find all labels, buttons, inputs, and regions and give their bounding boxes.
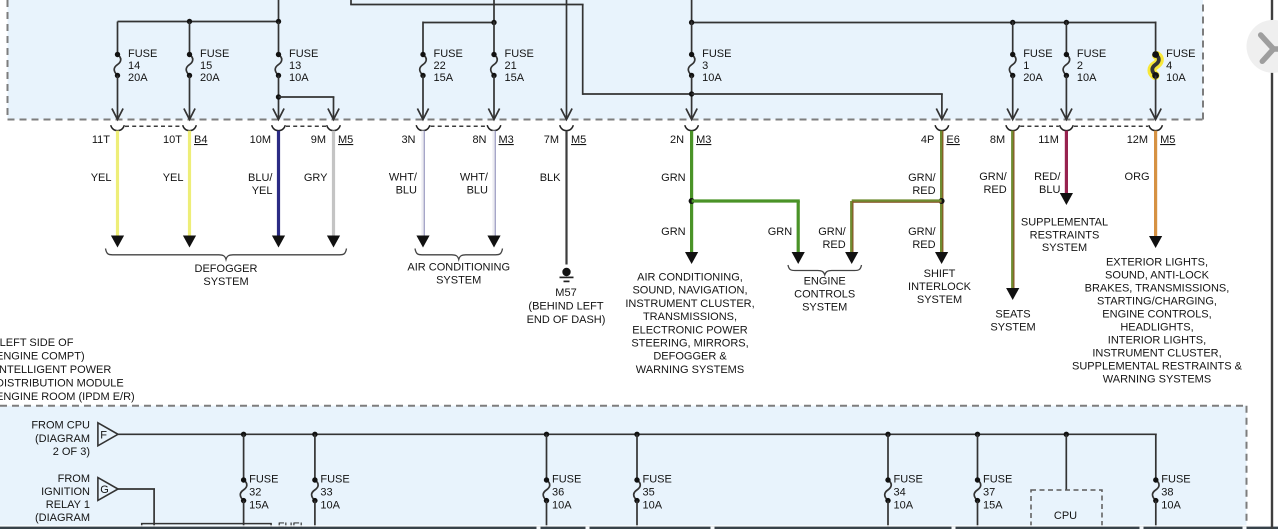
wire drop below fuse F15 (FUSE 15 20A) bbox=[189, 76, 191, 119]
connector cup at x=566.5 bbox=[560, 125, 574, 130]
svg-text:RELAY 1: RELAY 1 bbox=[46, 499, 90, 511]
wire feed from top to connector 7M (BLK) bbox=[566, 0, 568, 119]
box-exit arrow at x=691.6 bbox=[686, 109, 697, 120]
right panel edge line bbox=[1271, 0, 1273, 529]
wire drop below fuse F2 (FUSE 2 10A) bbox=[1065, 76, 1067, 119]
wire bus A (fuses 14/15/13) bbox=[118, 21, 280, 23]
pin label 10T bbox=[163, 134, 182, 146]
svg-text:B4: B4 bbox=[194, 134, 207, 146]
wire BLU/YEL from 10M bbox=[277, 131, 280, 237]
wire drop below fuse F34 (FUSE 34 10A) bbox=[887, 501, 889, 529]
svg-text:GRN: GRN bbox=[661, 172, 686, 184]
pin label 3N bbox=[401, 134, 415, 146]
svg-text:BLK: BLK bbox=[540, 172, 561, 184]
brace ENGINE CONTROLS SYSTEM bbox=[788, 265, 862, 275]
wire drop to CPU bbox=[1065, 434, 1067, 490]
svg-text:F: F bbox=[100, 429, 107, 441]
svg-text:8N: 8N bbox=[472, 134, 486, 146]
svg-text:20A: 20A bbox=[1023, 72, 1043, 84]
label GRN/RED 8M bbox=[979, 171, 1007, 196]
label GRN/RED branch bbox=[818, 226, 846, 251]
wire YEL from 10T bbox=[188, 131, 191, 237]
svg-text:11M: 11M bbox=[1038, 134, 1059, 146]
arrowhead GRN/RED branch bbox=[845, 252, 858, 264]
svg-text:DEFOGGER &: DEFOGGER & bbox=[653, 351, 727, 363]
label YEL 10T bbox=[163, 172, 184, 184]
box-exit arrow at x=278.5 bbox=[273, 109, 284, 120]
svg-text:20A: 20A bbox=[128, 72, 148, 84]
svg-text:15A: 15A bbox=[505, 72, 525, 84]
box-exit arrow at x=189.5 bbox=[184, 109, 195, 120]
svg-text:12M: 12M bbox=[1127, 134, 1148, 146]
svg-text:GRN: GRN bbox=[661, 226, 686, 238]
svg-text:GRY: GRY bbox=[304, 172, 328, 184]
svg-text:10A: 10A bbox=[1077, 72, 1097, 84]
connector name M3 at x=691.6 bbox=[696, 134, 711, 146]
wire elbow feed to node at fuse 3 bottom bbox=[350, 0, 692, 95]
svg-text:ENGINE: ENGINE bbox=[804, 276, 846, 288]
svg-text:2N: 2N bbox=[670, 134, 684, 146]
label YEL 11T bbox=[91, 172, 112, 184]
fuse F21 (FUSE 21 15A) bbox=[491, 48, 534, 84]
FUEL component box (clipped at bottom) bbox=[142, 521, 306, 529]
IPDM E/R power-distribution box (top, dashed) bbox=[8, 0, 1204, 120]
wire feed from top to fuse 13 bbox=[278, 0, 280, 23]
svg-text:14: 14 bbox=[128, 60, 140, 72]
svg-text:11T: 11T bbox=[92, 134, 110, 146]
wire drop above fuse F33 (FUSE 33 10A) bbox=[314, 434, 316, 480]
brace AIR CONDITIONING SYSTEM bbox=[415, 249, 503, 260]
connector name B4 at x=189.5 bbox=[194, 134, 207, 146]
svg-text:RESTRAINTS: RESTRAINTS bbox=[1030, 230, 1100, 242]
svg-text:ELECTRONIC POWER: ELECTRONIC POWER bbox=[632, 324, 748, 336]
svg-text:FUSE: FUSE bbox=[200, 48, 229, 60]
wire drop below fuse F38 bbox=[1155, 501, 1157, 529]
svg-text:IGNITION: IGNITION bbox=[41, 486, 90, 498]
svg-text:M5: M5 bbox=[1160, 134, 1175, 146]
svg-text:DEFOGGER: DEFOGGER bbox=[195, 263, 258, 275]
svg-text:SUPPLEMENTAL: SUPPLEMENTAL bbox=[1021, 217, 1108, 229]
wire BLK from 7M bbox=[565, 131, 567, 265]
connector name M5 at x=1155.6 bbox=[1160, 134, 1175, 146]
arrowhead GRN/RED 8M bbox=[1006, 288, 1019, 300]
arrowhead BLU/YEL bbox=[272, 236, 285, 248]
connector flag F (FROM CPU) bbox=[98, 423, 118, 446]
wire drop above fuse F4 (FUSE 4 10A, highlighted) bbox=[1155, 22, 1157, 55]
wire drop below fuse F37 (FUSE 37 15A) bbox=[977, 501, 979, 529]
svg-text:13: 13 bbox=[289, 60, 301, 72]
svg-text:INTERIOR LIGHTS,: INTERIOR LIGHTS, bbox=[1108, 335, 1206, 347]
svg-text:DISTRIBUTION MODULE: DISTRIBUTION MODULE bbox=[0, 378, 124, 390]
node bus E at fuse 1 bbox=[1010, 20, 1015, 25]
svg-text:FUSE: FUSE bbox=[289, 48, 318, 60]
svg-text:10A: 10A bbox=[552, 500, 572, 512]
node bottom bus at fuse F37 (FUSE 37 15A) bbox=[975, 432, 980, 437]
fuse F36 (FUSE 36 10A) bbox=[543, 474, 581, 512]
svg-text:BLU/: BLU/ bbox=[248, 172, 273, 184]
svg-text:GRN/: GRN/ bbox=[908, 172, 936, 184]
brace DEFOGGER SYSTEM bbox=[106, 249, 347, 260]
label GRN/RED 4P lower bbox=[908, 226, 936, 251]
label DEFOGGER SYSTEM bbox=[195, 263, 258, 288]
wire bottom bus from flag F bbox=[118, 433, 1157, 435]
label GRY bbox=[304, 172, 328, 184]
label SEATS SYSTEM bbox=[990, 309, 1035, 334]
svg-text:FUSE: FUSE bbox=[505, 48, 534, 60]
connector name M5 at x=566.5 bbox=[571, 134, 586, 146]
svg-text:RED/: RED/ bbox=[1034, 171, 1061, 183]
wire drop above fuse F13 (FUSE 13 10A) bbox=[278, 22, 280, 55]
ground M57 bbox=[560, 268, 574, 282]
svg-text:(LEFT SIDE OF: (LEFT SIDE OF bbox=[0, 337, 74, 349]
wire drop below fuse F35 (FUSE 35 10A) bbox=[636, 501, 638, 529]
svg-text:15A: 15A bbox=[434, 72, 454, 84]
label ORG bbox=[1125, 171, 1150, 183]
wire drop above fuse F3 (FUSE 3 10A) bbox=[691, 22, 693, 55]
connector cup at x=278.5 bbox=[272, 125, 286, 130]
node bus B at fuse 21 bbox=[491, 20, 496, 25]
fuse F22 (FUSE 22 15A) bbox=[420, 48, 463, 84]
wire drop above fuse F35 (FUSE 35 10A) bbox=[636, 434, 638, 480]
arrowhead GRY bbox=[327, 236, 340, 248]
svg-text:2: 2 bbox=[1077, 60, 1083, 72]
svg-text:15: 15 bbox=[200, 60, 212, 72]
svg-text:10A: 10A bbox=[702, 72, 722, 84]
svg-text:SHIFT: SHIFT bbox=[924, 268, 956, 280]
svg-text:10A: 10A bbox=[894, 500, 914, 512]
connector cup at x=494 bbox=[487, 125, 501, 130]
wire drop below fuse F33 (FUSE 33 10A) bbox=[314, 501, 316, 529]
svg-text:BLU: BLU bbox=[467, 185, 488, 197]
svg-text:1: 1 bbox=[1023, 60, 1029, 72]
svg-text:BRAKES, TRANSMISSIONS,: BRAKES, TRANSMISSIONS, bbox=[1085, 283, 1230, 295]
arrowhead WHT/BLU 3N bbox=[416, 236, 429, 248]
svg-text:FUSE: FUSE bbox=[1077, 48, 1106, 60]
svg-text:10M: 10M bbox=[250, 134, 271, 146]
node below fuse 13 branching to 9M bbox=[276, 94, 281, 99]
svg-text:(DIAGRAM: (DIAGRAM bbox=[35, 433, 90, 445]
label M57 (BEHIND LEFT END OF DASH) bbox=[527, 287, 606, 326]
svg-text:AIR CONDITIONING: AIR CONDITIONING bbox=[407, 262, 510, 274]
svg-text:YEL: YEL bbox=[91, 172, 112, 184]
pin label 9M bbox=[311, 134, 326, 146]
label FROM CPU (DIAGRAM 2 OF 3) bbox=[31, 419, 90, 458]
svg-text:FUSE: FUSE bbox=[983, 474, 1012, 486]
svg-text:2 OF 3): 2 OF 3) bbox=[53, 446, 90, 458]
svg-text:STARTING/CHARGING,: STARTING/CHARGING, bbox=[1097, 296, 1217, 308]
label SHIFT INTERLOCK SYSTEM bbox=[908, 268, 972, 306]
connector flag G (FROM IGNITION RELAY 1) bbox=[98, 478, 118, 501]
svg-text:FUSE: FUSE bbox=[1166, 48, 1195, 60]
fuse F15 (FUSE 15 20A) bbox=[186, 48, 229, 84]
svg-text:TRANSMISSIONS,: TRANSMISSIONS, bbox=[643, 311, 737, 323]
svg-text:CPU: CPU bbox=[1054, 510, 1077, 522]
arrowhead YEL 10T bbox=[183, 236, 196, 248]
node bus E at fuse 3 bbox=[689, 20, 694, 25]
svg-text:15A: 15A bbox=[249, 500, 269, 512]
arrowhead WHT/BLU 8N bbox=[487, 236, 500, 248]
svg-text:E6: E6 bbox=[946, 134, 959, 146]
wire branch from fuse 3 node to connector 4P bbox=[692, 94, 943, 119]
wire drop above fuse F1 (FUSE 1 20A) bbox=[1012, 22, 1014, 55]
connector name E6 at x=941.9 bbox=[946, 134, 959, 146]
wire feed from top to fuse 3 bbox=[691, 0, 693, 24]
node bottom bus at fuse F35 (FUSE 35 10A) bbox=[634, 432, 639, 437]
wire drop below fuse F1 (FUSE 1 20A) bbox=[1012, 76, 1014, 119]
connector name M3 at x=494 bbox=[499, 134, 514, 146]
svg-text:10A: 10A bbox=[643, 500, 663, 512]
svg-text:STEERING, MIRRORS,: STEERING, MIRRORS, bbox=[631, 338, 748, 350]
svg-text:FUSE: FUSE bbox=[643, 474, 672, 486]
connector name M5 at x=333.5 bbox=[338, 134, 353, 146]
wire YEL from 11T bbox=[116, 131, 119, 237]
wire drop below fuse F32 (FUSE 32 15A) bbox=[243, 501, 245, 529]
pin label 11T bbox=[92, 134, 110, 146]
svg-text:FUSE: FUSE bbox=[128, 48, 157, 60]
wire drop above fuse F21 (FUSE 21 15A) bbox=[493, 22, 495, 55]
connector dashed link 1012.7-1066.4 bbox=[1020, 125, 1059, 127]
svg-text:RED: RED bbox=[912, 239, 935, 251]
svg-text:21: 21 bbox=[505, 60, 517, 72]
svg-text:32: 32 bbox=[249, 487, 261, 499]
wire drop above fuse F34 (FUSE 34 10A) bbox=[887, 434, 889, 480]
fuse F4 (FUSE 4 10A, highlighted) bbox=[1152, 48, 1196, 84]
svg-text:GRN: GRN bbox=[768, 226, 793, 238]
wire feed from top to fuse 21 bbox=[493, 0, 495, 24]
svg-text:SYSTEM: SYSTEM bbox=[203, 276, 248, 288]
node bottom bus at fuse F36 (FUSE 36 10A) bbox=[544, 432, 549, 437]
svg-text:SUPPLEMENTAL RESTRAINTS &: SUPPLEMENTAL RESTRAINTS & bbox=[1072, 361, 1243, 373]
wire drop above fuse F38 bbox=[1155, 434, 1157, 481]
wire drop above fuse F14 (FUSE 14 20A) bbox=[117, 22, 119, 55]
wire drop above fuse F2 (FUSE 2 10A) bbox=[1065, 22, 1067, 55]
svg-text:END OF DASH): END OF DASH) bbox=[527, 314, 606, 326]
node bottom bus at fuse F34 (FUSE 34 10A) bbox=[885, 432, 890, 437]
label IPDM E/R module name bbox=[0, 337, 135, 403]
svg-text:INTELLIGENT POWER: INTELLIGENT POWER bbox=[0, 364, 111, 376]
svg-text:M5: M5 bbox=[571, 134, 586, 146]
wire RED/BLU from 11M bbox=[1065, 131, 1068, 195]
pin label 10M bbox=[250, 134, 271, 146]
svg-text:(BEHIND LEFT: (BEHIND LEFT bbox=[528, 301, 603, 313]
svg-text:SYSTEM: SYSTEM bbox=[436, 275, 481, 287]
connector cup at x=1066.4 bbox=[1060, 125, 1074, 130]
box-exit arrow at x=117.5 bbox=[112, 109, 123, 120]
svg-text:FROM CPU: FROM CPU bbox=[31, 419, 90, 431]
svg-text:WHT/: WHT/ bbox=[389, 172, 418, 184]
pin label 11M bbox=[1038, 134, 1059, 146]
fuse F14 (FUSE 14 20A) bbox=[114, 48, 157, 84]
svg-text:33: 33 bbox=[320, 487, 332, 499]
box-exit arrow at x=494 bbox=[488, 109, 499, 120]
bottom separator line bbox=[0, 525, 1278, 529]
wire drop below fuse F22 (FUSE 22 15A) bbox=[422, 76, 424, 119]
svg-text:SYSTEM: SYSTEM bbox=[990, 322, 1035, 334]
pin label 7M bbox=[544, 134, 559, 146]
wire GRN/RED branch to engine controls bbox=[852, 201, 942, 254]
label GRN/RED 4P upper bbox=[908, 172, 936, 197]
label GRN upper bbox=[661, 172, 686, 184]
next-page button (circle with chevron) bbox=[1247, 20, 1278, 73]
svg-text:22: 22 bbox=[434, 60, 446, 72]
fuse F33 (FUSE 33 10A) bbox=[312, 474, 350, 512]
svg-text:FUSE: FUSE bbox=[1161, 474, 1190, 486]
label AIR CONDITIONING SYSTEM bbox=[407, 262, 510, 287]
svg-text:RED: RED bbox=[912, 185, 935, 197]
node bus A at fuse 15 bbox=[187, 19, 192, 24]
label ENGINE CONTROLS SYSTEM bbox=[794, 276, 855, 314]
svg-text:10T: 10T bbox=[163, 134, 182, 146]
wire GRY from 9M bbox=[332, 131, 335, 237]
connector dashed link 1066.4-1155.6 bbox=[1074, 125, 1148, 127]
svg-text:RED: RED bbox=[822, 239, 845, 251]
label BLK bbox=[540, 172, 561, 184]
svg-text:35: 35 bbox=[643, 487, 655, 499]
arrowhead GRN/RED main bbox=[935, 252, 948, 264]
connector cup at x=1155.6 bbox=[1149, 125, 1163, 130]
svg-text:8M: 8M bbox=[990, 134, 1005, 146]
svg-text:BLU: BLU bbox=[396, 185, 417, 197]
box-exit arrow at x=941.9 bbox=[936, 109, 947, 120]
svg-text:ENGINE CONTROLS,: ENGINE CONTROLS, bbox=[1102, 309, 1211, 321]
svg-text:YEL: YEL bbox=[252, 185, 273, 197]
wire drop below fuse F14 (FUSE 14 20A) bbox=[117, 76, 119, 119]
svg-text:10A: 10A bbox=[289, 72, 309, 84]
pin label 4P bbox=[921, 134, 934, 146]
svg-text:10A: 10A bbox=[320, 500, 340, 512]
node bottom bus at fuse F32 (FUSE 32 15A) bbox=[241, 432, 246, 437]
connector cup at x=941.9 bbox=[935, 125, 949, 130]
svg-text:INSTRUMENT CLUSTER,: INSTRUMENT CLUSTER, bbox=[1092, 348, 1221, 360]
wire drop above fuse F32 (FUSE 32 15A) bbox=[243, 434, 245, 480]
node bus E at fuse 2 bbox=[1064, 20, 1069, 25]
wire drop above fuse F37 (FUSE 37 15A) bbox=[977, 434, 979, 480]
svg-text:SYSTEM: SYSTEM bbox=[802, 302, 847, 314]
svg-text:36: 36 bbox=[552, 487, 564, 499]
svg-text:(DIAGRAM: (DIAGRAM bbox=[35, 512, 90, 524]
wire WHT/BLU from 3N bbox=[423, 131, 424, 237]
svg-text:37: 37 bbox=[983, 487, 995, 499]
connector dashed link 117.5-189.5 bbox=[125, 125, 182, 127]
fuse F38 (FUSE 38 10A) bbox=[1152, 474, 1190, 512]
svg-text:AIR CONDITIONING,: AIR CONDITIONING, bbox=[637, 272, 743, 284]
svg-text:10A: 10A bbox=[1166, 72, 1186, 84]
label BLU/YEL bbox=[248, 172, 273, 197]
svg-text:SOUND, NAVIGATION,: SOUND, NAVIGATION, bbox=[632, 285, 747, 297]
arrowhead GRN main bbox=[685, 252, 698, 264]
svg-text:SYSTEM: SYSTEM bbox=[1042, 242, 1087, 254]
pin label 8M bbox=[990, 134, 1005, 146]
label exterior lights system list bbox=[1072, 257, 1243, 386]
svg-text:38: 38 bbox=[1161, 487, 1173, 499]
svg-text:M3: M3 bbox=[696, 134, 711, 146]
label air conditioning system list bbox=[625, 272, 754, 376]
box-exit arrow at x=1012.7 bbox=[1007, 109, 1018, 120]
pin label 12M bbox=[1127, 134, 1148, 146]
node below fuse 3 (junction to 2N and 4P) bbox=[689, 91, 694, 96]
fuse F35 (FUSE 35 10A) bbox=[634, 474, 672, 512]
svg-text:INSTRUMENT CLUSTER,: INSTRUMENT CLUSTER, bbox=[625, 298, 754, 310]
fuse F1 (FUSE 1 20A) bbox=[1009, 48, 1052, 84]
wire bus E (fuses 3/1/2/4) bbox=[692, 22, 1157, 24]
label GRN lower bbox=[661, 226, 686, 238]
wire GRN from 2N bbox=[690, 131, 693, 254]
svg-text:10A: 10A bbox=[1161, 500, 1181, 512]
svg-text:HEADLIGHTS,: HEADLIGHTS, bbox=[1120, 322, 1193, 334]
wire GRN branch to engine controls bbox=[692, 201, 800, 254]
box-exit arrow at x=423 bbox=[417, 109, 428, 120]
node bottom bus at fuse F33 (FUSE 33 10A) bbox=[312, 432, 317, 437]
svg-text:3: 3 bbox=[702, 60, 708, 72]
svg-text:FUSE: FUSE bbox=[249, 474, 278, 486]
arrowhead RED/BLU bbox=[1060, 193, 1073, 205]
connector cup at x=117.5 bbox=[111, 125, 125, 130]
svg-text:15A: 15A bbox=[983, 500, 1003, 512]
svg-text:WHT/: WHT/ bbox=[460, 172, 489, 184]
connector cup at x=423 bbox=[416, 125, 430, 130]
svg-text:SYSTEM: SYSTEM bbox=[917, 294, 962, 306]
svg-text:FUSE: FUSE bbox=[434, 48, 463, 60]
svg-text:7M: 7M bbox=[544, 134, 559, 146]
connector cup at x=691.6 bbox=[685, 125, 699, 130]
svg-text:M57: M57 bbox=[555, 287, 576, 299]
svg-text:FUSE: FUSE bbox=[702, 48, 731, 60]
label WHT/BLU 8N bbox=[460, 172, 489, 197]
svg-text:ENGINE COMPT): ENGINE COMPT) bbox=[0, 351, 85, 363]
svg-text:SEATS: SEATS bbox=[995, 309, 1030, 321]
wire drop below fuse F36 (FUSE 36 10A) bbox=[546, 501, 548, 529]
fuse F3 (FUSE 3 10A) bbox=[688, 48, 731, 84]
connector cup at x=333.5 bbox=[327, 125, 341, 130]
wire drop above fuse F36 (FUSE 36 10A) bbox=[546, 434, 548, 480]
svg-text:M3: M3 bbox=[499, 134, 514, 146]
fuse F34 (FUSE 34 10A) bbox=[885, 474, 923, 512]
connector dashed link 423-494 bbox=[431, 125, 487, 127]
svg-text:ENGINE ROOM (IPDM E/R): ENGINE ROOM (IPDM E/R) bbox=[0, 391, 135, 403]
box-exit arrow at x=1066.4 bbox=[1061, 109, 1072, 120]
svg-text:FUSE: FUSE bbox=[894, 474, 923, 486]
svg-text:EXTERIOR LIGHTS,: EXTERIOR LIGHTS, bbox=[1106, 257, 1208, 269]
wire drop above fuse F15 (FUSE 15 20A) bbox=[189, 22, 191, 55]
svg-text:GRN/: GRN/ bbox=[908, 226, 936, 238]
svg-text:RED: RED bbox=[983, 184, 1006, 196]
wire GRN/RED from 8M bbox=[1013, 131, 1014, 290]
box-exit arrow at x=1155.6 bbox=[1150, 109, 1161, 120]
svg-text:4P: 4P bbox=[921, 134, 934, 146]
arrowhead YEL 11T bbox=[111, 236, 124, 248]
fuse block box (bottom, dashed) bbox=[0, 406, 1247, 529]
wire drop below fuse F21 (FUSE 21 15A) bbox=[493, 76, 495, 119]
pin label 8N bbox=[472, 134, 486, 146]
node GRN junction bbox=[689, 198, 695, 204]
wire drop below fuse F4 (FUSE 4 10A, highlighted) bbox=[1155, 76, 1157, 119]
connector dashed link 278.5-333.5 bbox=[286, 125, 326, 127]
svg-text:GRN/: GRN/ bbox=[979, 171, 1007, 183]
svg-text:9M: 9M bbox=[311, 134, 326, 146]
pin label 2N bbox=[670, 134, 684, 146]
svg-text:GRN/: GRN/ bbox=[818, 226, 846, 238]
svg-text:FUSE: FUSE bbox=[552, 474, 581, 486]
label WHT/BLU 3N bbox=[389, 172, 418, 197]
connector cup at x=189.5 bbox=[183, 125, 197, 130]
node bus A at fuse 13 bbox=[276, 19, 281, 24]
svg-text:G: G bbox=[100, 484, 109, 496]
node bottom bus at CPU drop bbox=[1064, 432, 1069, 437]
svg-text:20A: 20A bbox=[200, 72, 220, 84]
wire GRN/RED from 4P bbox=[942, 131, 943, 254]
svg-text:M5: M5 bbox=[338, 134, 353, 146]
arrowhead GRN branch bbox=[792, 252, 805, 264]
